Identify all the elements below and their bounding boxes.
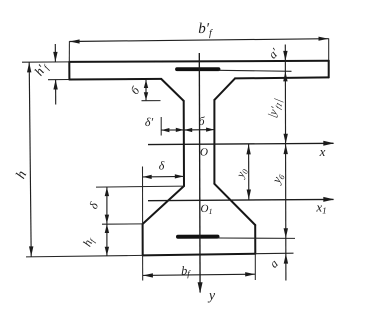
bottom left haunch diagonal [143,186,184,224]
bottom right haunch diagonal [214,184,255,225]
x axis [148,143,334,144]
arrow y0 top [246,144,250,154]
top reinforcement bar [177,67,219,71]
svg-text:O: O [200,147,208,159]
arrow delta horizontal right [175,174,184,178]
arrow b'f left [70,39,80,43]
svg-text:δ: δ [159,159,165,173]
svg-text:a′: a′ [265,45,281,61]
arrow bf right [245,272,255,276]
dimension line hf [106,224,108,256]
svg-text:a: a [267,256,281,270]
extension line below bottom flange right corner for bf [254,254,256,280]
web left edge [183,101,185,186]
arrow chamfer dim bottom [144,92,148,100]
arrow chamfer dim top [144,80,148,88]
extension line below bottom flange left corner for bf [142,256,144,281]
arrow y'f1 down at x axis [284,134,288,144]
top flange top edge [69,61,328,62]
dimension line b'f [69,39,328,42]
extension line bottom-right of bottom flange [255,252,293,255]
extension line left of top-left web corner [142,100,161,102]
top flange bottom edge left part [69,78,161,81]
svg-text:б: б [198,114,205,128]
svg-text:yб: yб [269,170,287,187]
svg-text:δ: δ [86,200,101,211]
arrow web width left [184,128,192,132]
extension line from top bar to right [219,70,292,71]
svg-text:б: б [128,83,143,97]
bottom flange bottom edge [143,254,256,256]
arrow h'f top [53,52,57,62]
arrow h'f bottom [53,80,57,90]
extension line top-left of flange top edge [22,61,69,63]
extension line above flange left corner for b'f [68,41,70,61]
arrow y0 bottom [247,190,251,200]
extension line bottom-left of bottom flange [26,255,143,257]
y axis centerline [198,53,201,293]
arrow web width right [206,128,214,132]
dimension line web width [184,129,214,131]
svg-text:y: y [207,289,216,304]
extension line from bottom flange left corner up for delta [142,167,144,225]
svg-text:h: h [14,169,31,182]
arrow bf left [143,273,153,277]
extension line above flange right corner for b'f [328,38,330,60]
bottom flange left edge [142,224,144,255]
arrow delta vertical top [105,187,109,196]
svg-text:b′f: b′f [198,21,213,39]
svg-text:y0: y0 [234,167,250,181]
arrow y axis [198,282,203,293]
arrow delta-prime left [161,128,169,132]
extension line from bottom bar to right [218,237,296,239]
svg-text:x1: x1 [315,200,326,216]
svg-text:O1: O1 [201,203,213,216]
dimension line y0 [248,144,250,199]
top flange bottom edge right part [235,77,329,78]
dimension line h'f lower shaft [55,80,57,105]
top left chamfer diagonal [161,79,184,101]
web right edge [213,100,215,184]
dimension line top-left chamfer height [145,80,147,101]
dimension line h'f upper shaft [54,44,56,62]
arrow yb up at x axis [284,144,288,154]
arrow x1 axis [323,197,334,202]
arrow hf bottom [105,247,109,256]
dimension line delta vertical [106,187,108,224]
dimension line bf [143,274,256,275]
extension line below top flange corner for delta-prime [160,117,162,136]
top flange right edge [328,61,330,78]
arrow h bottom [29,246,33,256]
svg-text:|y′f1|: |y′f1| [266,97,285,120]
arrow b'f right [319,37,329,41]
svg-text:hf: hf [80,234,98,249]
top flange left edge [68,62,70,80]
x1 axis [148,199,334,200]
dimension line delta horizontal [143,175,185,178]
arrow y'f1 up at bar level [283,71,287,81]
svg-text:x: x [319,144,326,159]
arrow a' down at flange top [283,51,287,61]
arrow a up at flange bottom [284,254,288,264]
dimension line h [29,62,31,256]
extension line left of bottom flange top corner [102,223,143,225]
svg-text:bf: bf [181,264,191,279]
bottom reinforcement bar [178,235,218,239]
arrow yb down at bar level [284,228,288,238]
dimension line delta-prime [161,129,184,131]
arrow h top [27,62,31,72]
arrow delta-prime right [176,128,184,132]
extension line left of web bottom corner [96,186,184,187]
bottom flange right edge [254,225,256,254]
dimension chain right side [284,45,287,281]
arrow delta horizontal left [143,175,152,179]
svg-text:δ′: δ′ [145,115,154,129]
arrow x axis [323,141,334,146]
top right chamfer diagonal [214,78,235,100]
arrow hf top [105,224,109,233]
arrow delta vertical bottom [105,215,109,224]
extension line left of flange bottom edge [48,79,69,81]
